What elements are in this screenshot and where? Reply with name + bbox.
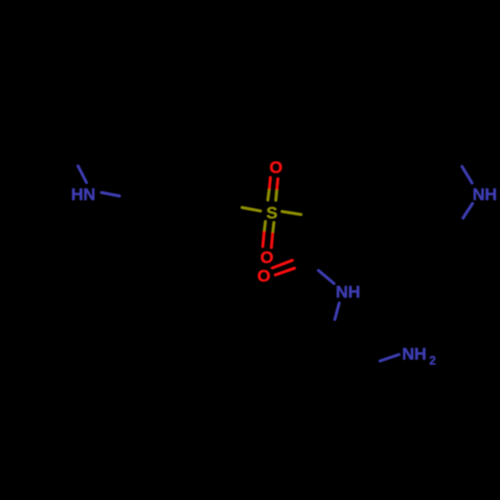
- double bond S1=O2 oxygen half line b: [271, 234, 272, 248]
- double bond S1=O2 sulfur half line a: [264, 222, 265, 233]
- double bond S1=O1 oxygen half line a: [269, 178, 270, 189]
- double bond C=O3 oxygen half line b: [275, 268, 294, 275]
- svg-text:NH: NH: [473, 185, 498, 204]
- svg-text:2: 2: [429, 354, 436, 368]
- bond N1-C(ring) half: [102, 193, 120, 197]
- double bond S1=O1 sulfur half line a: [268, 188, 270, 200]
- bond C-N3 half (to NH2): [380, 355, 399, 362]
- double bond C=O3 oxygen half line a: [272, 260, 292, 268]
- double bond S1=O2 sulfur half line b: [273, 223, 274, 234]
- double bond S1=O1 oxygen half line b: [277, 179, 278, 189]
- bond N1-C(ethyl) half: [78, 166, 87, 183]
- bond S1-C(left ring) half: [242, 208, 261, 212]
- svg-text:HN: HN: [71, 185, 96, 204]
- svg-text:O: O: [260, 248, 273, 267]
- svg-text:NH: NH: [402, 345, 427, 364]
- bond C(carbonyl)-N2 half: [319, 271, 335, 284]
- svg-text:NH: NH: [336, 283, 361, 302]
- double bond S1=O2 oxygen half line a: [263, 232, 264, 246]
- bond S1-C(right) half: [282, 212, 301, 215]
- bond C-N4 upper half: [462, 167, 472, 184]
- bond N2-C(ring) half: [335, 303, 339, 320]
- svg-text:O: O: [269, 158, 282, 177]
- double bond S1=O1 sulfur half line b: [276, 189, 277, 201]
- bond N4-C lower half: [463, 204, 473, 219]
- svg-text:S: S: [266, 204, 277, 223]
- svg-text:O: O: [257, 267, 270, 286]
